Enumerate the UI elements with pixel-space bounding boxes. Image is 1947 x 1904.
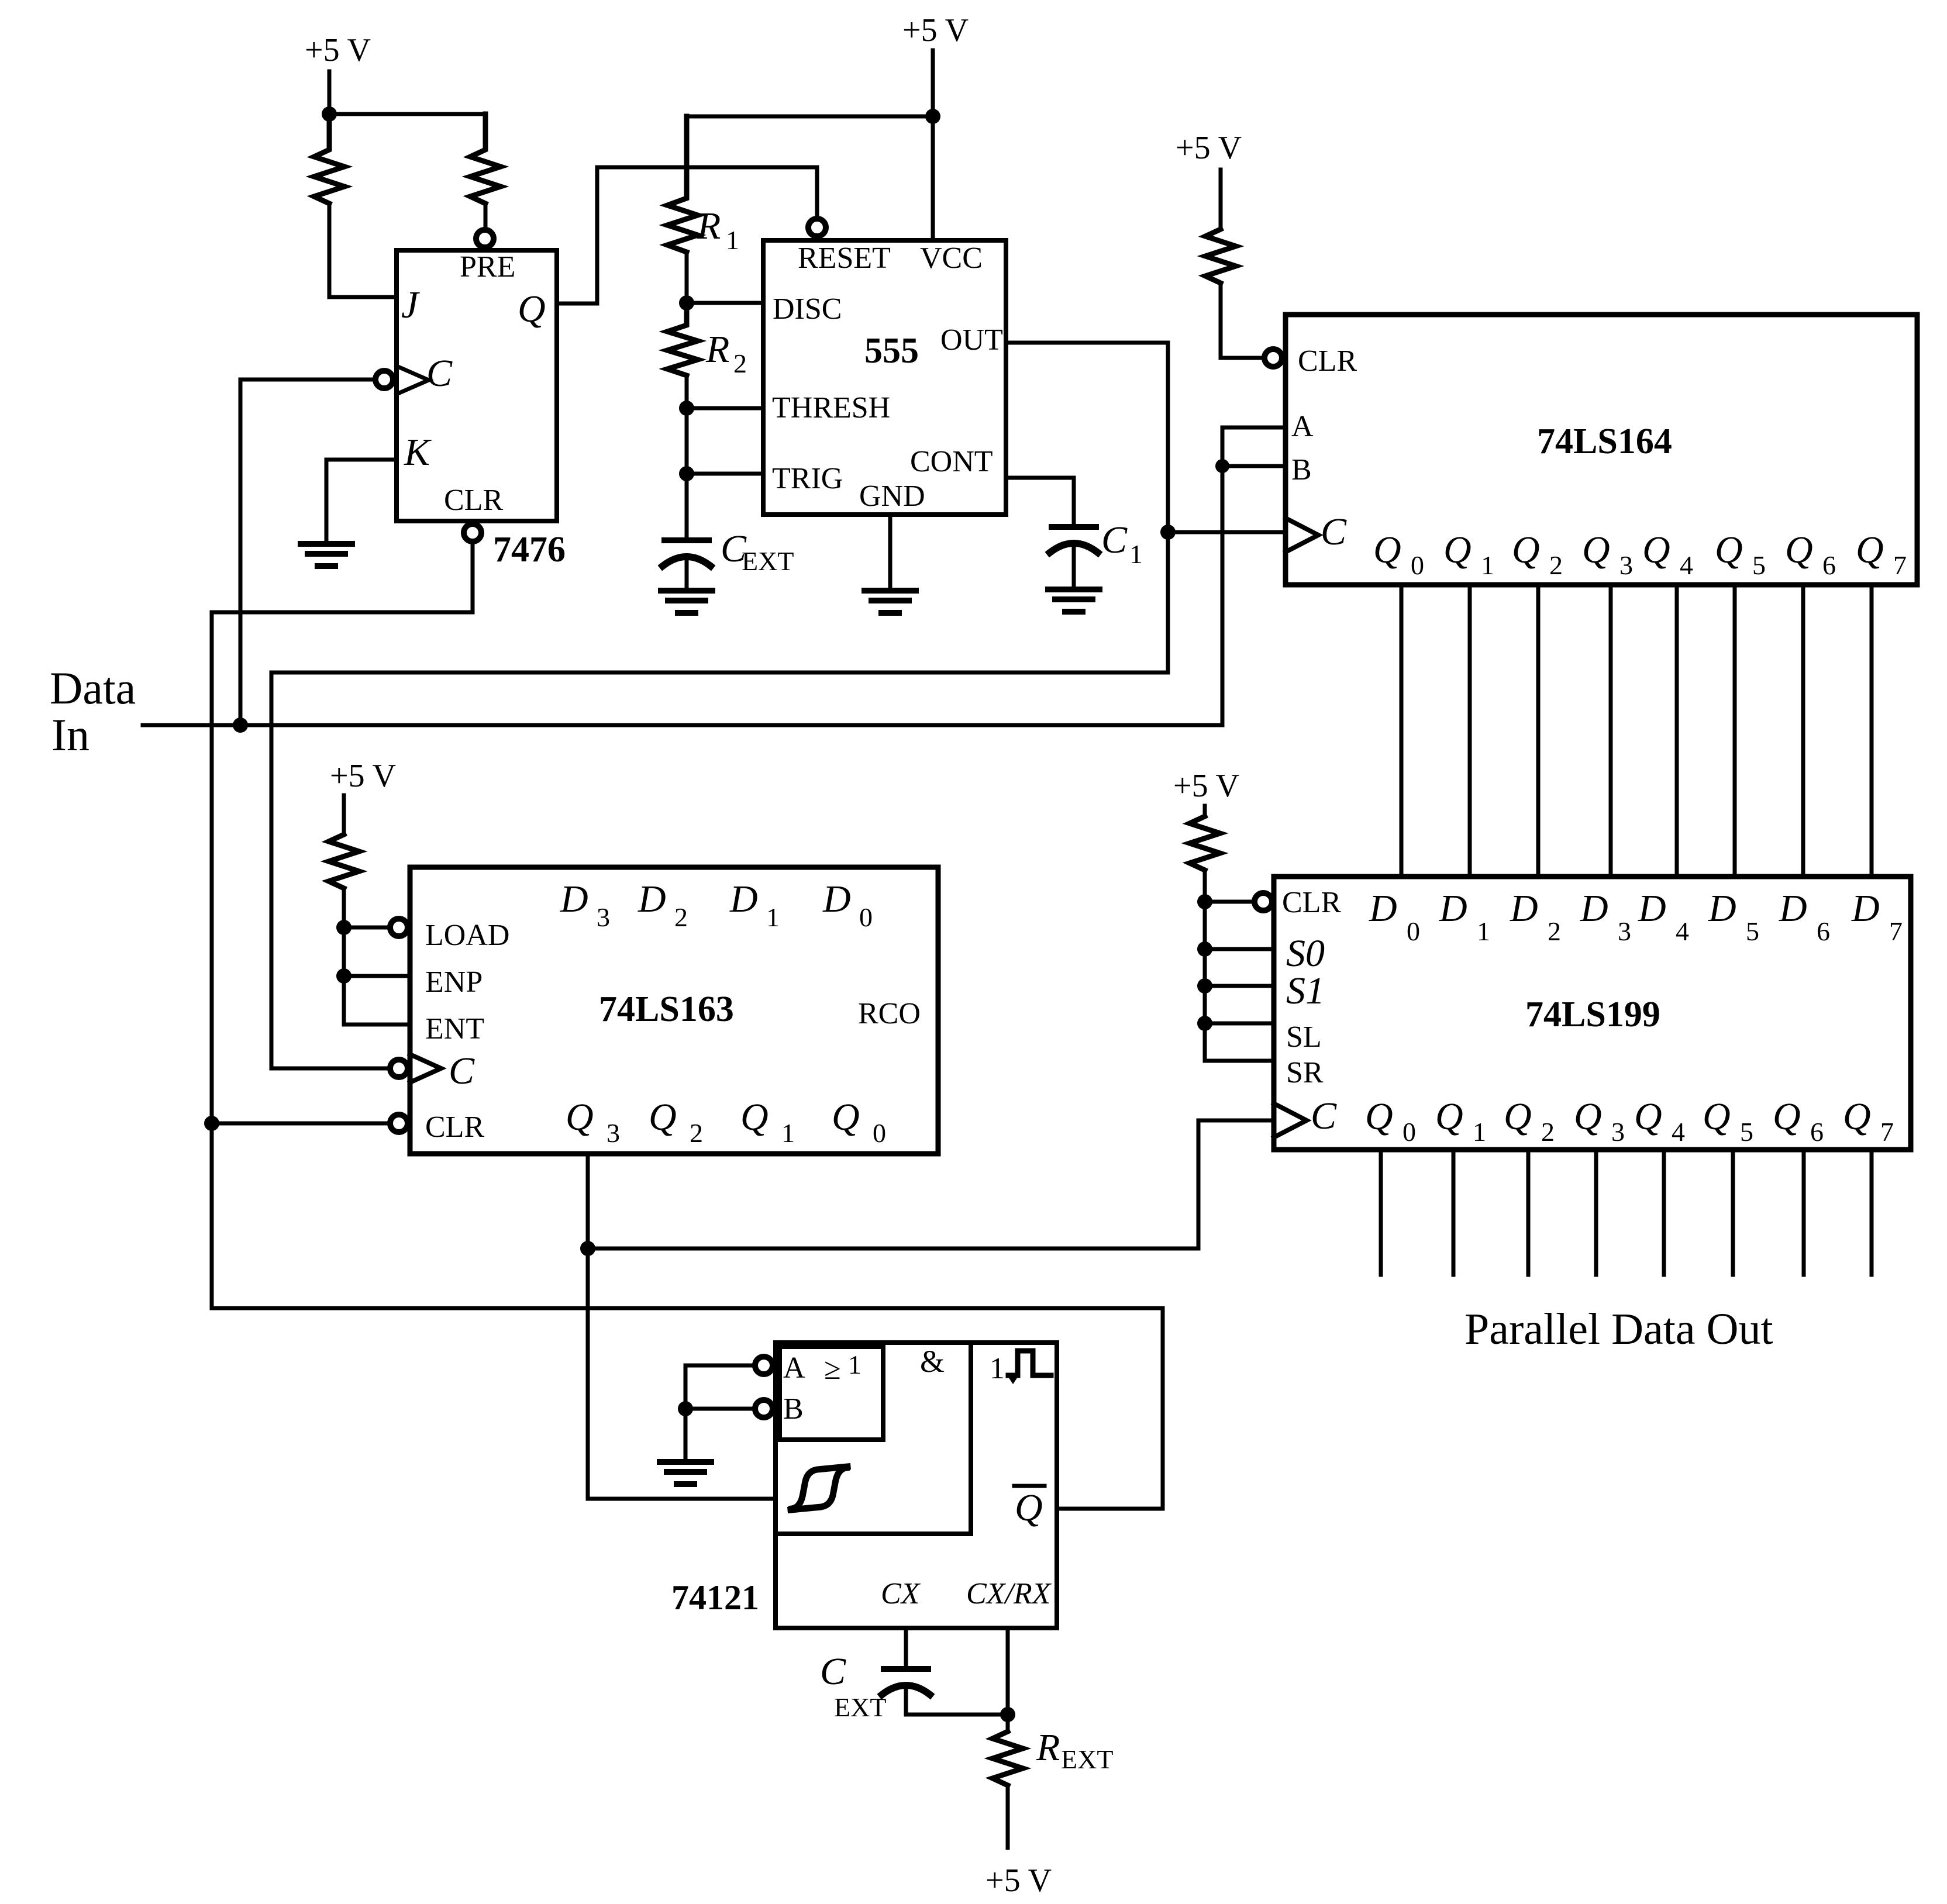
wire K input to ground — [326, 460, 397, 543]
junction Q3 net — [580, 1241, 595, 1256]
shift register U4 74LS199 box — [1274, 877, 1911, 1150]
junction TRIG node — [679, 466, 694, 481]
svg-text:C: C — [820, 1650, 846, 1693]
svg-text:GND: GND — [859, 480, 925, 513]
wire Q3 to D3 — [1609, 585, 1613, 877]
svg-text:R: R — [1036, 1726, 1060, 1769]
svg-text:K: K — [404, 431, 432, 474]
resistor R1 — [667, 116, 698, 252]
junction CLR net to 74LS163 — [204, 1116, 219, 1131]
svg-text:Q: Q — [1642, 529, 1670, 571]
svg-text:CONT: CONT — [910, 445, 993, 478]
svg-text:4: 4 — [1680, 550, 1693, 580]
tick on pulse symbol — [1007, 1375, 1019, 1384]
svg-text:0: 0 — [873, 1118, 886, 1148]
svg-text:3: 3 — [1611, 1117, 1625, 1147]
wire +5V rail to second pullup — [329, 112, 485, 116]
bubble RESET 555 (active-low) — [808, 219, 826, 236]
resistor R pullup 74LS164 CLR — [1205, 229, 1236, 283]
node +5V supply for 74LS199 controls — [1203, 806, 1207, 816]
junction CLR 199 branch — [1197, 894, 1212, 909]
svg-text:Q: Q — [1373, 529, 1401, 571]
svg-text:Q: Q — [649, 1096, 677, 1139]
svg-text:7: 7 — [1889, 916, 1903, 946]
svg-text:D: D — [560, 878, 588, 920]
wire down to ground — [684, 1409, 688, 1461]
wire Q output of 7476 to 555 RESET — [557, 167, 817, 303]
wire S1 input — [1205, 984, 1274, 988]
svg-text:555: 555 — [864, 331, 919, 371]
svg-text:Q: Q — [1582, 529, 1610, 571]
svg-text:CLR: CLR — [1298, 344, 1357, 378]
svg-text:D: D — [1708, 887, 1736, 930]
svg-text:+5 V: +5 V — [985, 1862, 1052, 1899]
wire Q3 output — [1594, 1150, 1598, 1275]
node +5V supply for 74LS164 CLR — [1219, 170, 1223, 229]
svg-text:D: D — [1369, 887, 1397, 930]
junction S0 branch — [1197, 941, 1212, 957]
ground below K — [301, 544, 352, 566]
svg-text:74121: 74121 — [671, 1578, 759, 1617]
wire Q6 output — [1802, 1150, 1806, 1275]
bubble C clock input 7476 — [375, 371, 393, 388]
wire Q0 output of 199 — [1379, 1150, 1383, 1275]
svg-text:D: D — [1851, 887, 1880, 930]
wire Q2 output — [1526, 1150, 1531, 1275]
svg-text:Q: Q — [740, 1096, 769, 1139]
ground below A/B — [660, 1462, 711, 1484]
wire C input of 199 from Q3 counter net — [588, 1120, 1274, 1248]
junction CX/RX node — [1000, 1707, 1015, 1722]
svg-text:Parallel Data Out: Parallel Data Out — [1464, 1305, 1773, 1354]
svg-text:S0: S0 — [1286, 932, 1325, 975]
svg-text:EXT: EXT — [834, 1692, 886, 1722]
wire S0 input — [1205, 947, 1274, 951]
svg-text:1: 1 — [766, 902, 780, 932]
svg-text:Q: Q — [1703, 1095, 1731, 1138]
bubble PRE (active-low) — [476, 230, 494, 247]
svg-text:2: 2 — [1549, 550, 1563, 580]
one-shot U6 74121 box — [776, 1343, 1057, 1628]
svg-text:RCO: RCO — [858, 997, 921, 1030]
svg-text:THRESH: THRESH — [772, 391, 890, 425]
wire to CLR bubble 199 — [1205, 900, 1252, 904]
junction R1-R2 DISC node — [679, 295, 694, 311]
svg-text:C: C — [426, 352, 453, 395]
svg-text:D: D — [1510, 887, 1538, 930]
svg-text:D: D — [1779, 887, 1807, 930]
capacitor C1 — [1052, 524, 1096, 530]
svg-text:Q: Q — [1435, 1095, 1463, 1138]
clock triangle 74LS199 — [1274, 1103, 1307, 1137]
bubble B input 74121 — [755, 1400, 773, 1417]
svg-text:4: 4 — [1676, 916, 1689, 946]
bubble C clock 74LS163 — [390, 1060, 408, 1077]
svg-text:C: C — [1311, 1095, 1337, 1137]
svg-text:Q: Q — [566, 1096, 594, 1139]
svg-text:Data: Data — [50, 663, 136, 713]
wire Q6 to D6 — [1801, 585, 1805, 877]
wire resistor to J input — [329, 203, 397, 297]
svg-text:6: 6 — [1810, 1117, 1824, 1147]
flip-flop U1 7476 box — [397, 250, 557, 521]
clock triangle 74LS163 — [410, 1054, 441, 1082]
wire resistor to CLR bubble — [1221, 283, 1261, 358]
svg-text:R: R — [705, 328, 729, 371]
wire CEXT bottom to RX node — [906, 1713, 1008, 1717]
svg-text:PRE: PRE — [460, 250, 515, 284]
svg-text:D: D — [1580, 887, 1608, 930]
svg-text:1: 1 — [1129, 539, 1143, 569]
ground below CEXT — [661, 591, 712, 613]
wire GND pin to ground — [888, 515, 892, 589]
wire R1 to DISC — [687, 252, 763, 303]
resistor R pullup 74LS199 — [1190, 816, 1220, 870]
junction S1 branch — [1197, 978, 1212, 994]
wire SL input — [1205, 1022, 1274, 1026]
svg-text:6: 6 — [1822, 550, 1836, 580]
svg-text:2: 2 — [674, 902, 688, 932]
svg-text:74LS164: 74LS164 — [1537, 422, 1672, 461]
bubble CLR 74LS164 (active-low) — [1264, 349, 1282, 367]
wire A input — [1222, 426, 1286, 430]
resistor REXT — [993, 1731, 1023, 1785]
svg-text:2: 2 — [690, 1118, 703, 1148]
svg-text:EXT: EXT — [1061, 1744, 1113, 1774]
svg-text:Q: Q — [1574, 1095, 1602, 1138]
svg-text:SR: SR — [1286, 1056, 1324, 1089]
clock triangle 74LS164 — [1286, 518, 1318, 552]
wire OUT net down and left to 74LS163 C input — [271, 532, 1168, 1068]
svg-text:2: 2 — [733, 349, 747, 378]
ground below 555 GND — [864, 591, 916, 613]
svg-text:0: 0 — [859, 902, 873, 932]
svg-text:Q: Q — [832, 1096, 860, 1139]
svg-text:TRIG: TRIG — [772, 462, 843, 495]
wire pullup column to ENT — [344, 888, 410, 1025]
bubble CLR 7476 (active-low) — [464, 524, 481, 541]
svg-text:Q: Q — [1856, 529, 1884, 571]
svg-text:B: B — [1291, 453, 1312, 487]
svg-text:5: 5 — [1746, 916, 1759, 946]
svg-text:Q: Q — [1785, 529, 1813, 571]
wire Q5 output — [1731, 1150, 1735, 1275]
svg-text:Q: Q — [518, 288, 546, 330]
wire CLR net from 7476 to 74LS163 CLR and 74121 Q-bar — [212, 544, 1163, 1509]
svg-text:CX/RX: CX/RX — [966, 1577, 1052, 1610]
resistor R pullup PRE — [470, 114, 501, 203]
svg-text:5: 5 — [1740, 1117, 1753, 1147]
wire B input — [685, 1407, 752, 1411]
svg-text:74LS199: 74LS199 — [1525, 995, 1660, 1034]
svg-text:Q: Q — [1634, 1095, 1662, 1138]
svg-text:+5 V: +5 V — [902, 12, 969, 49]
svg-text:Q: Q — [1843, 1095, 1871, 1138]
bubble CLR 74LS163 (active-low) — [390, 1115, 408, 1132]
wire Q0 of 164 to D0 of 199 — [1400, 585, 1404, 877]
svg-text:Q: Q — [1504, 1095, 1532, 1138]
svg-text:CLR: CLR — [1282, 886, 1341, 919]
junction OUT net at 74LS164 clock — [1160, 525, 1176, 540]
wire CX/RX pin down — [1006, 1628, 1010, 1731]
wire Q1 output — [1452, 1150, 1456, 1275]
node +5V supply for 7476 pullups — [328, 71, 332, 114]
svg-text:0: 0 — [1407, 916, 1420, 946]
svg-text:SL: SL — [1286, 1020, 1322, 1054]
junction THRESH node — [679, 401, 694, 416]
svg-text:A: A — [1291, 410, 1314, 443]
svg-text:2: 2 — [1548, 916, 1561, 946]
svg-text:2: 2 — [1541, 1117, 1555, 1147]
clock triangle 7476 — [397, 366, 429, 394]
ground below C1 — [1048, 589, 1100, 612]
junction ENP branch — [336, 968, 352, 984]
svg-text:S1: S1 — [1286, 970, 1325, 1012]
svg-text:CX: CX — [881, 1577, 921, 1610]
wire Data In riser to A and B — [1221, 427, 1225, 725]
AND/Schmitt section divider of 74121 — [776, 1343, 971, 1534]
svg-text:D: D — [1439, 887, 1467, 930]
wire R2 to THRESH — [687, 375, 763, 408]
wire Q2 to D2 — [1536, 585, 1541, 877]
svg-text:CLR: CLR — [425, 1110, 484, 1144]
svg-text:1: 1 — [1481, 550, 1494, 580]
junction B input — [1215, 459, 1229, 473]
wire OUT of 555 to clocks — [1006, 343, 1168, 532]
svg-text:1: 1 — [726, 225, 739, 255]
svg-text:C: C — [1101, 519, 1128, 561]
schmitt trigger hysteresis symbol — [791, 1468, 846, 1510]
svg-text:+5 V: +5 V — [330, 758, 396, 794]
svg-text:4: 4 — [1672, 1117, 1685, 1147]
svg-text:R: R — [697, 205, 721, 247]
svg-text:1: 1 — [848, 1350, 861, 1379]
svg-text:In: In — [51, 709, 89, 760]
svg-text:74LS163: 74LS163 — [599, 989, 734, 1029]
wire C input from Data In junction — [240, 380, 372, 725]
bubble A input 74121 — [755, 1357, 773, 1374]
svg-text:1: 1 — [1473, 1117, 1486, 1147]
wire Q7 output — [1870, 1150, 1874, 1275]
overbar of Q-bar output — [1014, 1484, 1045, 1488]
svg-text:Q: Q — [1773, 1095, 1801, 1138]
svg-text:3: 3 — [1618, 916, 1631, 946]
wire Q4 output — [1662, 1150, 1666, 1275]
svg-text:OUT: OUT — [940, 323, 1003, 357]
svg-text:1: 1 — [1477, 916, 1490, 946]
shift register U3 74LS164 box — [1286, 315, 1917, 585]
svg-text:RESET: RESET — [798, 242, 891, 275]
svg-text:D: D — [637, 878, 666, 920]
svg-text:DISC: DISC — [773, 292, 842, 326]
wire Q1 to D1 — [1468, 585, 1472, 877]
svg-text:3: 3 — [597, 902, 610, 932]
timer U2 555 box — [763, 240, 1006, 515]
wire Q4 to D4 — [1675, 585, 1679, 877]
svg-text:VCC: VCC — [920, 242, 983, 275]
junction at +5V rail 7476 — [322, 106, 337, 122]
svg-text:7: 7 — [1880, 1117, 1894, 1147]
wire REXT to +5V — [1006, 1785, 1010, 1848]
svg-text:&: & — [920, 1344, 945, 1379]
OR section inner box of 74121 — [780, 1347, 883, 1440]
wire THRESH node to TRIG — [685, 408, 689, 474]
svg-text:Q: Q — [1443, 529, 1472, 571]
wire resistor to PRE bubble — [484, 203, 488, 227]
svg-text:ENP: ENP — [425, 965, 483, 999]
svg-text:C: C — [449, 1050, 475, 1092]
svg-text:6: 6 — [1817, 916, 1830, 946]
svg-text:D: D — [729, 878, 758, 920]
wire Q5 to D5 — [1733, 585, 1737, 877]
svg-text:Q: Q — [1715, 529, 1743, 571]
wire TRIG pin — [687, 472, 763, 476]
wire CX pin to CEXT capacitor — [904, 1628, 908, 1667]
junction +5V VCC rail — [925, 109, 940, 124]
svg-text:7: 7 — [1893, 550, 1907, 580]
svg-text:J: J — [401, 284, 420, 326]
svg-text:Q: Q — [1365, 1095, 1393, 1138]
wire pullup column to SR — [1205, 870, 1274, 1061]
wire +5V to VCC pin — [931, 116, 935, 240]
bubble CLR 74LS199 (active-low) — [1255, 893, 1272, 910]
junction A/B ground node — [678, 1401, 693, 1416]
node +5V supply for 74LS163 controls — [342, 795, 346, 834]
wire A input to ground column — [685, 1365, 752, 1409]
svg-text:1: 1 — [990, 1352, 1005, 1385]
wire +5V rail to R1 — [687, 115, 933, 119]
svg-text:Q: Q — [1015, 1486, 1043, 1529]
wire Q3 of 163 down to 74121 Schmitt input — [588, 1154, 776, 1499]
svg-text:LOAD: LOAD — [425, 919, 509, 952]
svg-text:D: D — [1638, 887, 1666, 930]
svg-text:EXT: EXT — [742, 546, 794, 576]
svg-text:B: B — [783, 1392, 804, 1426]
svg-text:+5 V: +5 V — [305, 32, 371, 68]
wire CONT pin to C1 — [1006, 478, 1074, 525]
resistor R pullup 74LS163 — [329, 834, 359, 888]
svg-text:+5 V: +5 V — [1176, 130, 1242, 166]
capacitor CEXT of 74121 — [884, 1666, 928, 1672]
wire branch to 74LS164 C input — [1168, 530, 1286, 534]
svg-text:CLR: CLR — [444, 484, 503, 517]
svg-text:D: D — [822, 878, 851, 920]
wire TRIG node to CEXT — [685, 474, 689, 538]
counter U5 74LS163 box — [410, 867, 938, 1154]
svg-text:3: 3 — [1619, 550, 1633, 580]
junction on Data In line — [233, 718, 248, 733]
capacitor CEXT of 555 — [664, 537, 709, 543]
wire to LOAD bubble — [344, 926, 387, 930]
svg-text:0: 0 — [1411, 550, 1424, 580]
svg-text:+5 V: +5 V — [1173, 768, 1239, 804]
svg-text:7476: 7476 — [493, 530, 566, 570]
svg-text:A: A — [783, 1351, 805, 1385]
svg-text:5: 5 — [1752, 550, 1766, 580]
junction SL branch — [1197, 1016, 1212, 1031]
wire B input — [1222, 464, 1286, 468]
svg-text:1: 1 — [781, 1118, 795, 1148]
svg-text:ENT: ENT — [425, 1012, 484, 1046]
resistor R2 — [667, 303, 698, 375]
bubble LOAD 74LS163 (active-low) — [390, 919, 408, 936]
wire branch to 74LS163 CLR bubble — [212, 1122, 387, 1126]
resistor R pullup J — [314, 114, 344, 203]
wire Data In line — [143, 723, 1222, 727]
wire Q7 to D7 — [1870, 585, 1874, 877]
svg-text:C: C — [1321, 511, 1347, 553]
wire ENP input — [344, 974, 410, 978]
svg-text:Q: Q — [1512, 529, 1540, 571]
svg-text:0: 0 — [1402, 1117, 1416, 1147]
junction LOAD branch — [336, 920, 352, 935]
pulse symbol of one-shot — [1008, 1351, 1051, 1375]
svg-text:3: 3 — [607, 1118, 620, 1148]
svg-text:≥: ≥ — [824, 1353, 841, 1386]
node +5V supply for 555 — [931, 50, 935, 116]
